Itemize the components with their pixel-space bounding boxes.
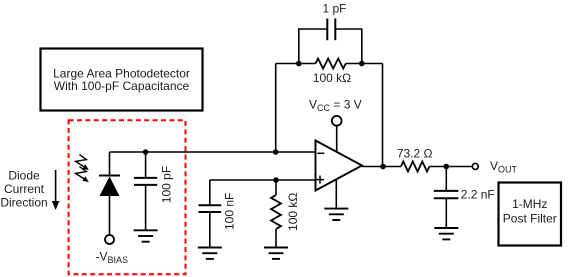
resistor 100 kΩ (feedback) bbox=[276, 59, 383, 86]
svg-text:Diode: Diode bbox=[8, 169, 40, 183]
node: inverting/feedback junction bbox=[273, 149, 279, 155]
node: non-inverting junction bbox=[273, 177, 279, 183]
node: feedback right cap tap bbox=[359, 61, 365, 67]
svg-text:Direction: Direction bbox=[0, 196, 47, 210]
arrow: diode current direction bbox=[52, 170, 60, 210]
op-amp U1 bbox=[316, 141, 363, 191]
wire: to output terminal bbox=[429, 166, 472, 168]
capacitor 100 nF bbox=[199, 180, 237, 248]
ground (100 nF) bbox=[198, 248, 222, 259]
terminal: -VBIAS bbox=[96, 235, 129, 265]
label: Diode Current Direction bbox=[0, 169, 47, 210]
svg-text:1-MHz: 1-MHz bbox=[512, 197, 547, 211]
node: filter junction bbox=[444, 164, 450, 170]
resistor 73.2 Ω bbox=[397, 146, 433, 171]
svg-text:2.2 nF: 2.2 nF bbox=[461, 188, 495, 202]
capacitor 2.2 nF bbox=[434, 167, 495, 229]
terminal: VOUT bbox=[472, 159, 517, 175]
wire: feedback left vertical bbox=[275, 64, 277, 153]
ground (100 pF) bbox=[134, 230, 158, 241]
svg-text:100 pF: 100 pF bbox=[160, 166, 174, 203]
light arrow 1 bbox=[76, 155, 89, 170]
svg-text:100 nF: 100 nF bbox=[223, 193, 237, 230]
wire: feedback right vertical bbox=[382, 64, 384, 167]
wire: output bbox=[362, 166, 401, 168]
annotation box: Large Area Photodetector bbox=[41, 49, 203, 111]
svg-text:With 100-pF Capacitance: With 100-pF Capacitance bbox=[54, 79, 190, 93]
photodetector boundary (red dashed) bbox=[69, 120, 186, 274]
svg-text:Current: Current bbox=[4, 182, 45, 196]
svg-text:73.2 Ω: 73.2 Ω bbox=[397, 146, 433, 160]
node: photodiode/C junction bbox=[143, 149, 149, 155]
wire: non-inverting input bbox=[210, 179, 316, 181]
ground (op-amp) bbox=[324, 209, 348, 220]
capacitor 1 pF bbox=[322, 2, 346, 41]
light arrow 2 bbox=[76, 167, 89, 182]
svg-text:VCC = 3 V: VCC = 3 V bbox=[309, 98, 362, 114]
svg-text:1 pF: 1 pF bbox=[322, 2, 346, 16]
supply VCC bbox=[309, 98, 362, 153]
svg-text:100 kΩ: 100 kΩ bbox=[313, 71, 351, 85]
capacitor 100 pF bbox=[134, 152, 174, 230]
wire: capacitor branch bbox=[299, 29, 362, 64]
svg-text:Post Filter: Post Filter bbox=[503, 212, 557, 226]
wire: op-amp ground lead bbox=[335, 180, 337, 209]
ground (100 kΩ) bbox=[264, 248, 288, 259]
node: output/feedback junction bbox=[380, 164, 386, 170]
node: feedback left cap tap bbox=[296, 61, 302, 67]
annotation box: 1-MHz Post Filter bbox=[499, 183, 562, 246]
resistor 100 kΩ (to ground) bbox=[271, 180, 300, 248]
photodiode D1 bbox=[99, 152, 120, 235]
ground (2.2 nF) bbox=[434, 228, 458, 239]
wire: inverting input (photodiode to op-amp) bbox=[110, 151, 316, 153]
svg-text:100 kΩ: 100 kΩ bbox=[286, 193, 300, 231]
